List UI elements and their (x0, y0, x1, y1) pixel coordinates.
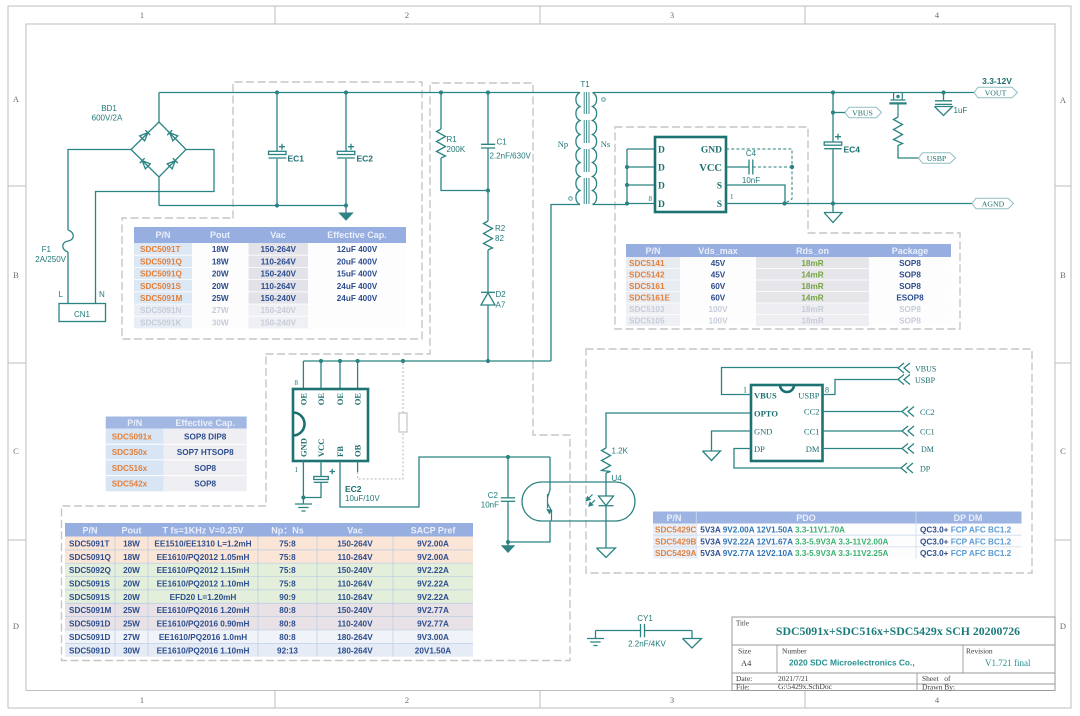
svg-text:SDC350x: SDC350x (112, 448, 148, 457)
ground open arrow at CY1 right (683, 631, 702, 649)
svg-text:1: 1 (140, 10, 144, 20)
svg-text:200K: 200K (447, 145, 466, 154)
capacitor EC2 (337, 93, 373, 206)
load switch mosfet on VOUT (889, 93, 906, 118)
transformer T1 (558, 80, 610, 205)
svg-text:EC2: EC2 (345, 484, 362, 494)
svg-text:Effective Cap.: Effective Cap. (327, 230, 387, 240)
svg-text:D: D (1060, 621, 1066, 631)
svg-text:QC3.0+ FCP AFC BC1.2: QC3.0+ FCP AFC BC1.2 (920, 549, 1012, 558)
svg-text:EC4: EC4 (844, 145, 861, 155)
chevron VBUS (898, 363, 910, 373)
svg-text:SDC5429C: SDC5429C (655, 526, 697, 535)
svg-text:C: C (13, 446, 19, 456)
svg-text:SDC5091T: SDC5091T (140, 245, 181, 254)
svg-text:VCC: VCC (699, 163, 722, 174)
capacitor 1uF with ground (935, 93, 968, 116)
svg-text:DM: DM (806, 444, 820, 454)
wire: bridge top vertical (158, 93, 160, 123)
svg-text:Vac: Vac (347, 526, 363, 536)
svg-text:P/N: P/N (82, 526, 97, 536)
svg-text:90:9: 90:9 (279, 593, 296, 602)
svg-text:SDC5091K: SDC5091K (140, 318, 182, 327)
primary controller IC U1 (293, 361, 368, 474)
wire: D2 to drain rail (487, 305, 489, 361)
svg-text:SDC516x: SDC516x (112, 464, 148, 473)
svg-text:EE1610/PQ2012 1.15mH: EE1610/PQ2012 1.15mH (157, 566, 250, 575)
capacitor C2 (481, 457, 515, 542)
svg-text:FB: FB (335, 446, 345, 457)
svg-text:SDC5142: SDC5142 (629, 271, 665, 280)
svg-text:EE1610/PQ2016 1.10mH: EE1610/PQ2016 1.10mH (157, 646, 250, 655)
svg-text:EE1610/PQ2012 1.10mH: EE1610/PQ2012 1.10mH (157, 580, 250, 589)
column tick marks top (275, 6, 805, 24)
svg-text:R2: R2 (495, 224, 506, 233)
table5 USB PD options (653, 512, 1022, 559)
svg-text:150-264V: 150-264V (337, 540, 373, 549)
wire: drain rail (303, 360, 551, 362)
ground open under EC4 (824, 204, 842, 223)
svg-text:N: N (99, 290, 105, 299)
svg-text:BD1: BD1 (101, 104, 117, 113)
svg-text:V1.721 final: V1.721 final (985, 658, 1031, 668)
svg-text:SDC5091T: SDC5091T (69, 540, 110, 549)
dashed group box: USB PD controller region with table5 (586, 349, 1032, 573)
T1 primary winding (576, 93, 580, 205)
resistor R2 (484, 221, 506, 250)
svg-text:20uF 400V: 20uF 400V (337, 257, 378, 266)
svg-text:D: D (658, 200, 665, 210)
wire: VCC pin to C4 (726, 166, 749, 168)
svg-text:SDC5161: SDC5161 (629, 282, 665, 291)
svg-text:3: 3 (670, 10, 674, 20)
svg-text:60V: 60V (711, 294, 726, 303)
svg-text:30W: 30W (212, 318, 229, 327)
svg-text:Title: Title (736, 620, 749, 628)
svg-text:20W: 20W (123, 580, 140, 589)
port AGND (972, 198, 1014, 208)
svg-text:100V: 100V (708, 317, 728, 326)
port USBP (919, 153, 956, 163)
svg-text:QC3.0+ FCP AFC BC1.2: QC3.0+ FCP AFC BC1.2 (920, 526, 1012, 535)
svg-text:20W: 20W (123, 566, 140, 575)
svg-text:SOP8 DIP8: SOP8 DIP8 (184, 433, 227, 442)
svg-text:5V3A 9V2.00A 12V1.50A 3.3-1: 5V3A 9V2.00A 12V1.50A 3.3-11V1.70A (700, 526, 845, 535)
svg-text:GND: GND (754, 427, 772, 437)
svg-text:B: B (13, 270, 19, 280)
diode BD1 top-right (167, 130, 178, 141)
wire: GND pin to ground (712, 431, 752, 451)
port VOUT (974, 87, 1018, 97)
svg-text:SDC5103: SDC5103 (629, 305, 665, 314)
svg-text:SOP8: SOP8 (194, 464, 216, 473)
U1 notch (293, 413, 305, 436)
svg-text:SOP8: SOP8 (899, 259, 921, 268)
svg-text:L: L (59, 290, 64, 299)
svg-text:USBP: USBP (915, 376, 936, 385)
wire: bridge right arm loop to CN1 N pin (96, 150, 215, 304)
svg-text:SDC5091Q: SDC5091Q (69, 553, 112, 562)
svg-text:110-264V: 110-264V (337, 593, 373, 602)
svg-text:3: 3 (670, 695, 674, 705)
svg-text:75:8: 75:8 (279, 566, 296, 575)
svg-text:60V: 60V (711, 282, 726, 291)
svg-text:OPTO: OPTO (754, 409, 778, 419)
svg-text:GND: GND (299, 438, 309, 457)
svg-text:Ns: Ns (601, 139, 610, 149)
opto LED diode (599, 473, 614, 548)
svg-text:150-240V: 150-240V (260, 294, 296, 303)
capacitor EC2 low side (303, 469, 380, 503)
wire: R2 to D2 (487, 250, 489, 292)
svg-text:1: 1 (295, 466, 299, 474)
svg-text:EE1610/PQ2016 1.0mH: EE1610/PQ2016 1.0mH (159, 633, 247, 642)
svg-text:3.3-12V: 3.3-12V (982, 76, 1012, 86)
svg-text:GND: GND (701, 146, 722, 156)
U1 top pin stubs (303, 361, 357, 389)
ground arrow filled under C2 (507, 542, 509, 546)
svg-text:45V: 45V (711, 259, 726, 268)
wire: C2 bottom to opto emitter (508, 521, 550, 542)
resistor on USBP gate (894, 117, 919, 158)
svg-text:9V2.77A: 9V2.77A (417, 620, 449, 629)
svg-text:EE1610/PQ2012 1.05mH: EE1610/PQ2012 1.05mH (157, 553, 250, 562)
ground IEC under U1 (295, 498, 312, 512)
svg-text:SDC5092Q: SDC5092Q (69, 566, 112, 575)
svg-text:S: S (717, 182, 722, 192)
svg-text:P/N: P/N (666, 513, 681, 523)
svg-text:9V2.00A: 9V2.00A (417, 540, 449, 549)
ground open under GND pin (703, 451, 721, 461)
wire: fuse to CN1 L pin (67, 252, 69, 304)
capacitor EC1 (269, 93, 305, 206)
svg-text:D: D (658, 146, 665, 156)
svg-text:150-240V: 150-240V (260, 270, 296, 279)
svg-text:Effective Cap.: Effective Cap. (175, 418, 235, 428)
svg-text:SOP8: SOP8 (899, 317, 921, 326)
svg-text:80:8: 80:8 (279, 633, 296, 642)
svg-text:EFD20 L=1.20mH: EFD20 L=1.20mH (170, 593, 237, 602)
svg-text:Number: Number (782, 647, 807, 656)
svg-text:C1: C1 (497, 138, 508, 147)
svg-text:A4: A4 (741, 658, 752, 668)
dashed group box: SR mosfet region with table2 (615, 127, 960, 329)
svg-text:10uF/10V: 10uF/10V (345, 494, 380, 503)
wire: VBUS stub (833, 112, 845, 114)
wire: secondary bottom to SR drain pins (593, 204, 628, 206)
chevron DP (901, 463, 913, 473)
svg-text:Pout: Pout (122, 526, 142, 536)
svg-text:SDC5429B: SDC5429B (655, 537, 697, 546)
svg-text:Pout: Pout (210, 230, 230, 240)
svg-text:S: S (717, 200, 722, 210)
wire: negative rail under EC1 EC2 (159, 205, 346, 207)
svg-text:F1: F1 (42, 245, 52, 254)
svg-text:14mR: 14mR (801, 271, 823, 280)
wire: OB stub (357, 461, 359, 472)
table3 package options (106, 417, 247, 492)
wire: CC1 pin (823, 430, 903, 432)
column tick marks bottom (275, 691, 805, 709)
svg-text:B: B (1060, 270, 1066, 280)
svg-text:EC1: EC1 (288, 154, 305, 164)
svg-text:8: 8 (295, 379, 299, 387)
svg-text:SDC5091D: SDC5091D (69, 646, 111, 655)
svg-text:25W: 25W (123, 606, 140, 615)
svg-text:OB: OB (353, 444, 363, 457)
svg-text:C2: C2 (488, 491, 499, 500)
diode BD1 bottom-left (140, 158, 151, 169)
svg-text:C: C (1060, 446, 1066, 456)
diode BD1 bottom-right (167, 158, 178, 169)
svg-text:8: 8 (825, 386, 829, 395)
svg-text:OE: OE (316, 393, 326, 406)
svg-text:1: 1 (743, 386, 747, 395)
svg-text:SOP8: SOP8 (899, 305, 921, 314)
svg-text:SDC5105: SDC5105 (629, 317, 665, 326)
svg-text:2.2nF/4KV: 2.2nF/4KV (628, 640, 666, 649)
svg-text:27W: 27W (212, 306, 229, 315)
svg-text:A7: A7 (496, 301, 506, 310)
svg-text:File:: File: (736, 683, 750, 692)
svg-text:G:\5429x.SchDoc: G:\5429x.SchDoc (778, 682, 833, 691)
svg-text:Rds_on: Rds_on (796, 246, 829, 256)
svg-text:20W: 20W (212, 270, 229, 279)
svg-text:SDC5091Q: SDC5091Q (140, 270, 183, 279)
svg-text:10mR: 10mR (801, 317, 823, 326)
wire: primary bottom to drain vertical (551, 205, 580, 362)
svg-text:SDC5091Q: SDC5091Q (140, 257, 183, 266)
svg-text:USBP: USBP (798, 391, 820, 401)
svg-text:VCC: VCC (316, 439, 326, 457)
svg-text:EE1510/EE1310 L=1.2mH: EE1510/EE1310 L=1.2mH (154, 540, 251, 549)
svg-text:SDC5091x+SDC516x+SDC5429x SCH: SDC5091x+SDC516x+SDC5429x SCH 20200726 (776, 624, 1020, 638)
ground open under opto LED (597, 548, 616, 558)
svg-text:R1: R1 (447, 135, 458, 144)
svg-text:D: D (658, 164, 665, 174)
svg-text:PDO: PDO (796, 513, 816, 523)
svg-text:C4: C4 (746, 149, 757, 158)
bridge rectifier BD1 (131, 122, 186, 177)
svg-text:20W: 20W (123, 593, 140, 602)
svg-text:9V2.77A: 9V2.77A (417, 606, 449, 615)
svg-text:25W: 25W (212, 294, 229, 303)
svg-text:CC1: CC1 (804, 427, 820, 437)
svg-text:110-264V: 110-264V (337, 553, 373, 562)
capacitor EC4 (824, 93, 860, 204)
svg-text:9V3.00A: 9V3.00A (417, 633, 449, 642)
svg-text:180-264V: 180-264V (337, 633, 373, 642)
svg-text:5V3A 9V2.22A 12V1.67A 3.3-5: 5V3A 9V2.22A 12V1.67A 3.3-5.9V3A 3.3-11V… (700, 537, 888, 546)
svg-text:CC1: CC1 (920, 428, 935, 437)
svg-text:D2: D2 (496, 290, 507, 299)
svg-text:OE: OE (299, 393, 309, 406)
svg-text:A: A (1060, 95, 1067, 105)
wire: USBP pin to chevron (823, 380, 899, 395)
resistor R1 (437, 93, 489, 191)
svg-text:100V: 100V (708, 305, 728, 314)
svg-text:SDC5091M: SDC5091M (69, 606, 112, 615)
U1 body (293, 389, 368, 461)
svg-text:AGND: AGND (982, 199, 1005, 208)
svg-text:9V2.22A: 9V2.22A (417, 566, 449, 575)
svg-text:110-264V: 110-264V (261, 282, 297, 291)
wire: DM pin (823, 448, 903, 450)
svg-text:SDC5091D: SDC5091D (69, 633, 111, 642)
capacitor C4 (749, 160, 753, 175)
fuse F1 (63, 230, 74, 252)
svg-text:P/N: P/N (155, 230, 170, 240)
wire: U1 FB pin to feedback rail (340, 457, 550, 507)
wire: U1 GND pin down (302, 461, 304, 498)
chevron USBP (898, 375, 910, 385)
svg-text:A: A (13, 94, 20, 104)
svg-text:10nF: 10nF (481, 501, 499, 510)
svg-text:75:8: 75:8 (279, 540, 296, 549)
svg-text:USBP: USBP (927, 154, 947, 163)
SR mosfet IC U2 (655, 137, 726, 212)
svg-text:80:8: 80:8 (279, 606, 296, 615)
wire: main HV bus (159, 92, 580, 94)
svg-text:1.2K: 1.2K (612, 447, 629, 456)
svg-text:VBUS: VBUS (852, 108, 873, 117)
svg-text:CC2: CC2 (920, 408, 935, 417)
capacitor CY1 (596, 614, 693, 649)
svg-text:45V: 45V (711, 271, 726, 280)
svg-text:SDC542x: SDC542x (112, 480, 148, 489)
svg-text:1uF: 1uF (954, 106, 968, 115)
svg-text:VOUT: VOUT (985, 88, 1007, 97)
chevron DM (902, 444, 914, 454)
row tick marks left (8, 186, 26, 540)
T1 phase dot secondary (602, 98, 606, 102)
svg-text:150-264V: 150-264V (260, 245, 296, 254)
wire: opto collector from feedback rail (549, 457, 551, 490)
svg-text:OE: OE (353, 393, 363, 406)
svg-text:20W: 20W (212, 282, 229, 291)
svg-text:150-240V: 150-240V (337, 606, 373, 615)
svg-text:2: 2 (405, 10, 409, 20)
chevron CC1 (902, 426, 914, 436)
svg-text:Package: Package (892, 246, 929, 256)
svg-text:SDC5091N: SDC5091N (140, 306, 182, 315)
svg-text:5V3A 9V2.77A 12V2.10A 3.3-5: 5V3A 9V2.77A 12V2.10A 3.3-5.9V3A 3.3-11V… (700, 549, 888, 558)
svg-text:T1: T1 (580, 80, 590, 89)
svg-text:14mR: 14mR (801, 294, 823, 303)
svg-text:EE1610/PQ2016 0.90mH: EE1610/PQ2016 0.90mH (157, 620, 250, 629)
svg-text:75:8: 75:8 (279, 553, 296, 562)
opto LED light arrows (587, 495, 596, 507)
svg-text:SDC5091S: SDC5091S (69, 580, 111, 589)
junction dots on HV bus and rail (275, 90, 279, 94)
svg-text:VBUS: VBUS (915, 365, 936, 374)
svg-text:15uF 400V: 15uF 400V (337, 270, 378, 279)
diode D2 (481, 290, 506, 310)
svg-text:Np：Ns: Np：Ns (271, 526, 304, 536)
svg-text:DP: DP (920, 465, 931, 474)
wire: OPTO pin to 1.2K (606, 413, 751, 448)
svg-text:QC3.0+ FCP AFC BC1.2: QC3.0+ FCP AFC BC1.2 (920, 537, 1012, 546)
svg-text:DP DM: DP DM (954, 513, 983, 523)
svg-text:600V/2A: 600V/2A (92, 114, 123, 123)
svg-text:92:13: 92:13 (277, 646, 298, 655)
wire: bridge left arm to fuse (68, 150, 131, 231)
svg-text:150-240V: 150-240V (337, 566, 373, 575)
svg-text:9V2.00A: 9V2.00A (417, 553, 449, 562)
svg-text:82: 82 (495, 234, 504, 243)
table4 transformer design (65, 523, 473, 657)
svg-text:SDC5091M: SDC5091M (140, 294, 183, 303)
optocoupler U4 body (522, 482, 635, 521)
svg-text:110-264V: 110-264V (337, 580, 373, 589)
svg-text:SACP Pref: SACP Pref (411, 526, 457, 536)
svg-text:Size: Size (738, 647, 752, 656)
svg-text:SDC5091S: SDC5091S (69, 593, 111, 602)
svg-text:80:8: 80:8 (279, 620, 296, 629)
svg-text:DP: DP (754, 444, 765, 454)
connector CN1 (59, 304, 106, 322)
svg-text:SDC5091S: SDC5091S (140, 282, 182, 291)
svg-text:Revision: Revision (966, 647, 993, 656)
svg-text:24uF 400V: 24uF 400V (337, 294, 378, 303)
svg-text:18W: 18W (212, 257, 229, 266)
USB PD controller IC U5 (743, 385, 829, 461)
wire: S pin lower / AGND rail (726, 203, 972, 205)
svg-text:9V2.22A: 9V2.22A (417, 580, 449, 589)
optional resistor outline (399, 413, 407, 432)
svg-text:180-264V: 180-264V (337, 646, 373, 655)
svg-text:SDC5429A: SDC5429A (655, 549, 697, 558)
svg-text:2020 SDC Microelectronics Co.,: 2020 SDC Microelectronics Co., (789, 658, 915, 668)
svg-text:DM: DM (921, 445, 934, 454)
svg-text:CN1: CN1 (74, 310, 91, 319)
svg-text:75:8: 75:8 (279, 580, 296, 589)
capacitor C1 (481, 93, 532, 191)
svg-text:SDC5161E: SDC5161E (629, 294, 671, 303)
svg-text:1: 1 (730, 193, 734, 201)
T1 phase dot primary (569, 197, 573, 201)
svg-text:2.2nF/630V: 2.2nF/630V (490, 152, 532, 161)
svg-text:SOP7 HTSOP8: SOP7 HTSOP8 (177, 448, 234, 457)
svg-text:D: D (13, 621, 19, 631)
svg-text:2: 2 (405, 695, 409, 705)
wire: S pin upper to source node (726, 185, 785, 204)
svg-text:VBUS: VBUS (754, 391, 777, 401)
T1 secondary winding (593, 93, 597, 205)
T1 core (584, 92, 589, 204)
row tick marks right (1055, 186, 1071, 540)
svg-text:D: D (658, 182, 665, 192)
wire: DP pin loop (734, 449, 901, 469)
wire: VBUS pin loop to chevron (722, 368, 899, 395)
svg-text:P/N: P/N (127, 418, 142, 428)
chevron CC2 (902, 407, 914, 417)
svg-text:EE1610/PQ2016 1.20mH: EE1610/PQ2016 1.20mH (157, 606, 250, 615)
svg-text:2A/250V: 2A/250V (35, 255, 66, 264)
svg-text:18W: 18W (123, 553, 140, 562)
wire: bridge bottom vertical (158, 177, 160, 206)
svg-text:EC2: EC2 (357, 154, 374, 164)
diode BD1 top-left (140, 130, 151, 141)
svg-text:ESOP8: ESOP8 (896, 294, 924, 303)
svg-text:150-240V: 150-240V (260, 306, 296, 315)
svg-text:Vds_max: Vds_max (698, 246, 738, 256)
table1 effective capacitance (134, 227, 406, 328)
wire: CC2 pin (823, 411, 903, 413)
ground arrow filled under EC2 (338, 213, 354, 221)
svg-text:10nF: 10nF (742, 176, 760, 185)
svg-text:1: 1 (140, 695, 144, 705)
